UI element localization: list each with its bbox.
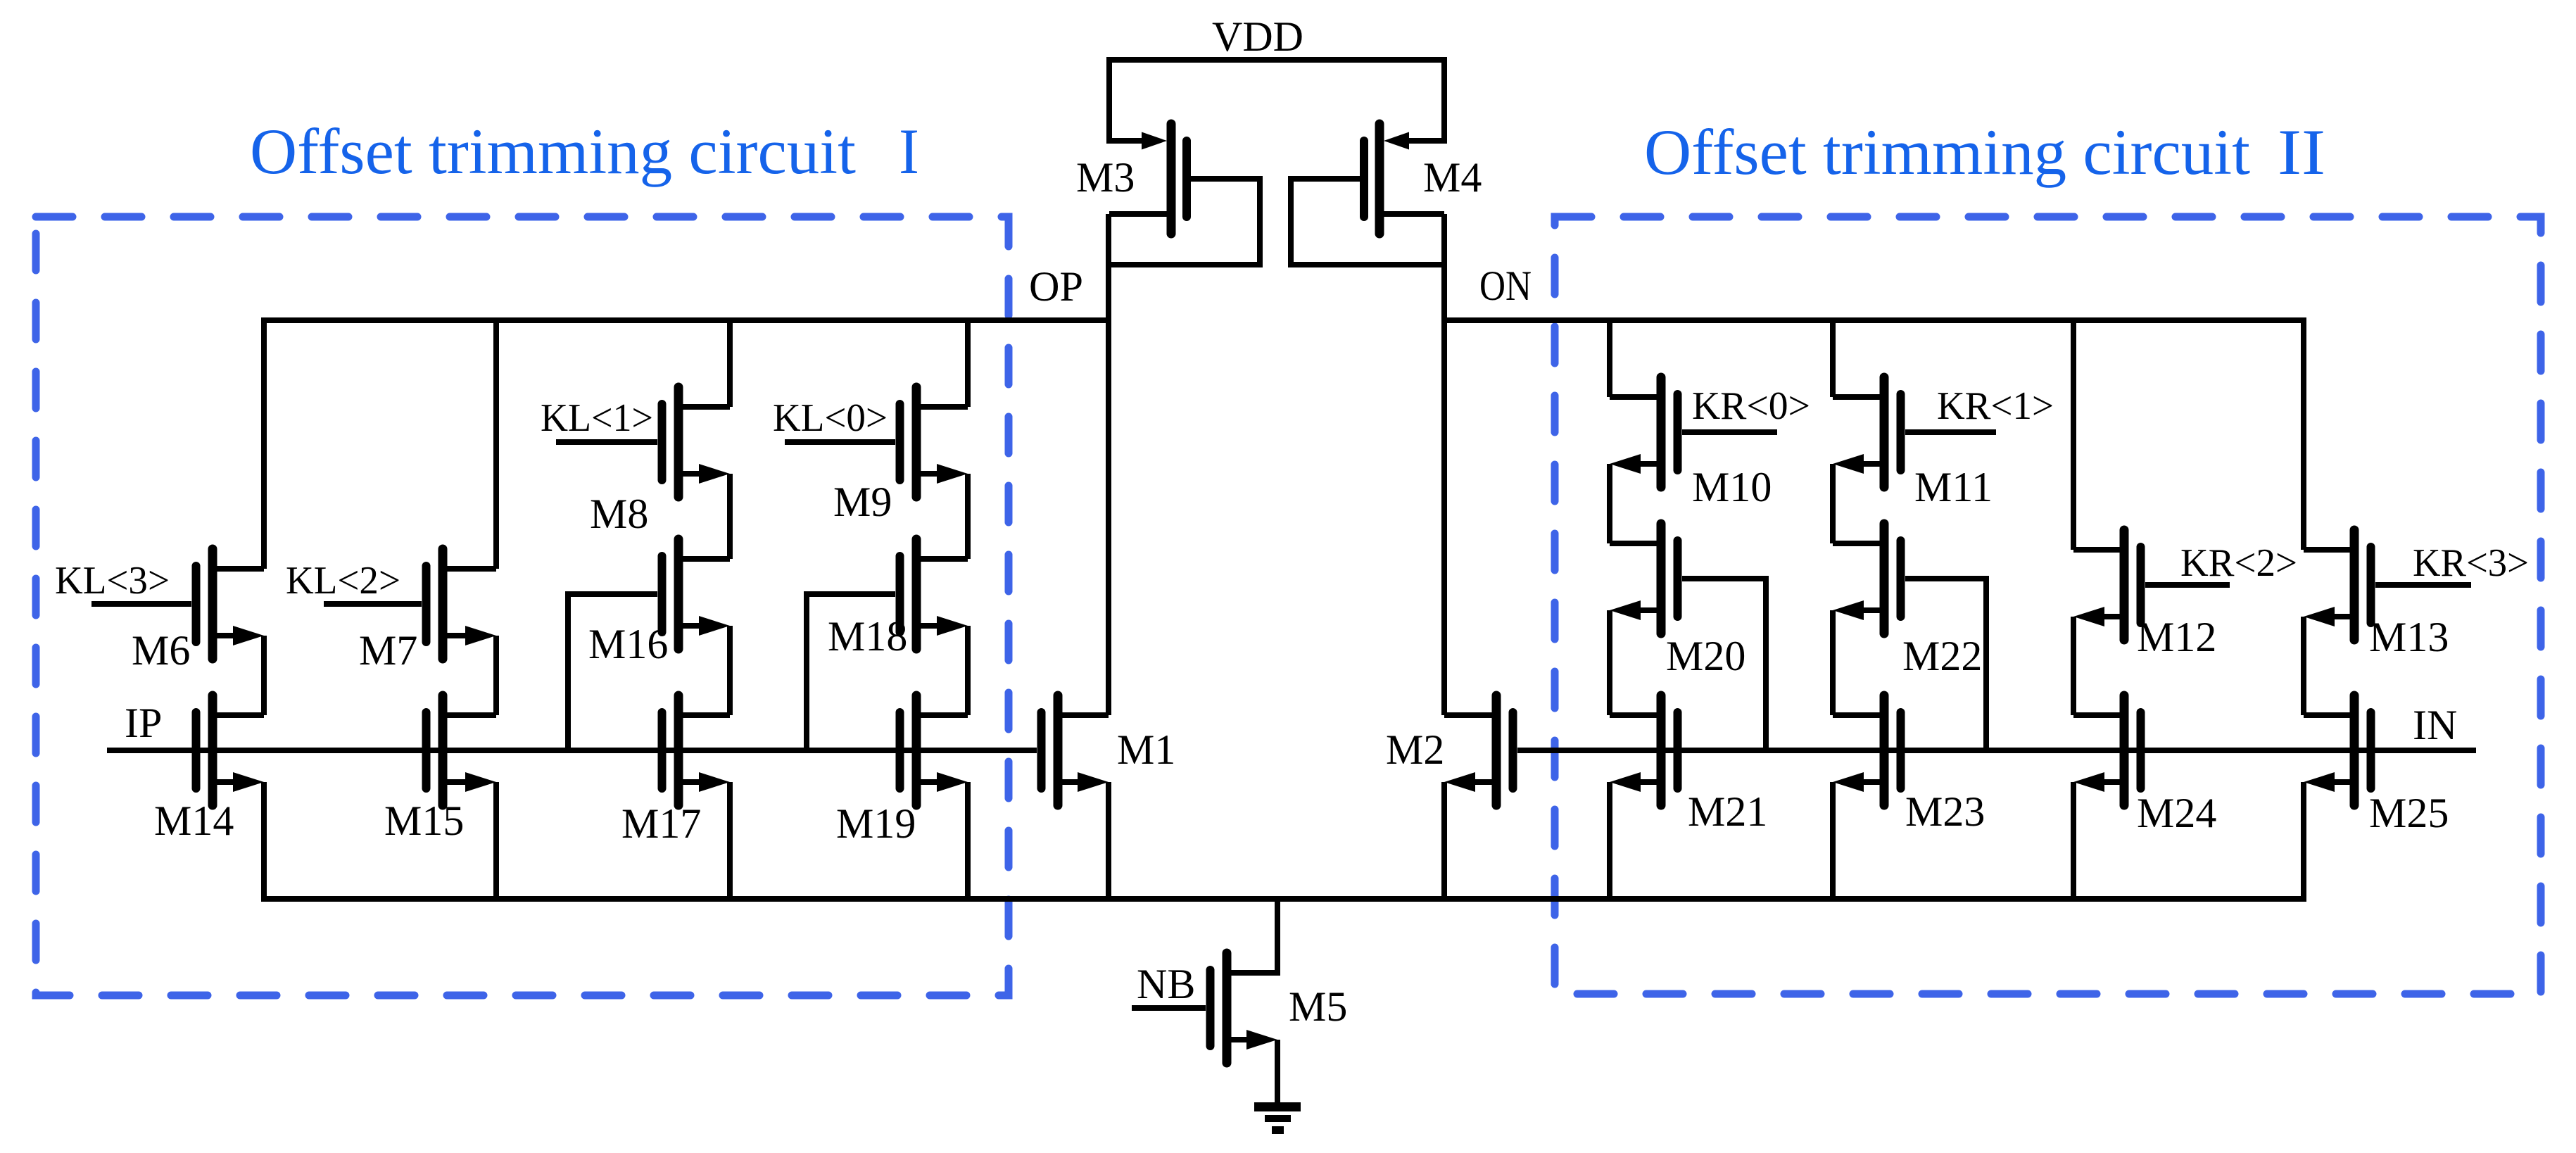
svg-text:OP: OP	[1029, 263, 1083, 310]
wire M20 source to M21 drain	[1607, 610, 1612, 715]
svg-text:KR<2>: KR<2>	[2180, 541, 2297, 585]
wire KL<0> gate	[785, 439, 895, 445]
svg-text:M18: M18	[828, 613, 907, 660]
wire M18 gate hook to IP rail	[807, 594, 895, 750]
transistor M11	[1833, 377, 1901, 487]
wire M15 source to tail rail	[493, 782, 499, 902]
transistor M23	[1833, 695, 1901, 805]
svg-text:M14: M14	[154, 798, 234, 844]
wire KR<0> gate	[1682, 429, 1777, 435]
wire M24 source to tail rail	[2071, 782, 2076, 902]
IP input rail	[107, 748, 1037, 753]
transistor M7	[427, 549, 497, 659]
wire KR<1> gate	[1905, 429, 1996, 435]
wire M9 source to M18 drain	[965, 474, 971, 559]
svg-text:KR<3>: KR<3>	[2413, 541, 2529, 585]
transistor M24	[2073, 695, 2141, 805]
wire ON rail to M12 drain	[2071, 317, 2076, 550]
wire M14 source to tail rail	[261, 782, 267, 902]
transistor M21	[1610, 695, 1678, 805]
wire tail to M5 drain	[1227, 899, 1277, 973]
wire M13 source to M25 drain	[2301, 617, 2306, 715]
svg-text:M1: M1	[1117, 726, 1175, 773]
ground	[1254, 1102, 1301, 1134]
wire M12 source to M24 drain	[2071, 617, 2076, 715]
wire M6 source to M14 drain	[261, 636, 267, 715]
transistor M6	[196, 549, 265, 659]
svg-text:M16: M16	[588, 621, 668, 667]
wire M20 gate hook to IN rail	[1682, 579, 1766, 750]
transistor M8	[662, 387, 731, 497]
wire M10 source to M20 drain	[1607, 464, 1612, 543]
svg-text:M13: M13	[2369, 614, 2449, 660]
transistor M13	[2304, 530, 2371, 640]
svg-text:II: II	[2278, 116, 2325, 188]
wire KR<2> gate	[2145, 582, 2230, 588]
wire M25 source to tail rail	[2301, 782, 2306, 902]
svg-text:M23: M23	[1905, 788, 1985, 835]
wire M16 source to M17 drain	[727, 626, 733, 715]
transistor M3	[1109, 124, 1187, 234]
transistor M17	[662, 695, 731, 805]
IN input rail	[1517, 748, 2476, 753]
svg-text:VDD: VDD	[1212, 13, 1303, 60]
wire ON rail to M13 drain	[2301, 317, 2306, 550]
svg-text:NB: NB	[1137, 961, 1195, 1007]
wire M17 source to tail rail	[727, 782, 733, 902]
ON rail	[1444, 317, 2306, 323]
svg-text:Offset trimming circuit: Offset trimming circuit	[1644, 116, 2250, 188]
svg-text:M11: M11	[1914, 464, 1993, 510]
svg-text:M12: M12	[2137, 614, 2216, 660]
wire M11 source to M22 drain	[1830, 464, 1836, 543]
wire M23 source to tail rail	[1830, 782, 1836, 902]
svg-text:M19: M19	[836, 800, 916, 847]
transistor M20	[1610, 524, 1678, 634]
transistor M16	[662, 539, 731, 649]
svg-text:M15: M15	[384, 798, 464, 844]
svg-text:I: I	[899, 115, 919, 187]
wire M1 source to tail	[1106, 782, 1111, 902]
wire M22 source to M23 drain	[1830, 610, 1836, 715]
node ON vertical wire (M4 drain to M2 drain)	[1441, 214, 1447, 715]
wire M7 source to M15 drain	[493, 636, 499, 715]
svg-text:KR<0>: KR<0>	[1692, 384, 1810, 428]
svg-text:M22: M22	[1902, 633, 1982, 679]
svg-text:KL<2>: KL<2>	[286, 559, 400, 603]
wire M19 source to tail rail	[965, 782, 971, 902]
svg-text:IP: IP	[125, 700, 162, 746]
wire ON rail to M11 drain	[1830, 317, 1836, 397]
transistor M22	[1833, 524, 1901, 634]
VDD power rail	[1109, 57, 1444, 63]
transistor M10	[1610, 377, 1678, 487]
transistor M9	[900, 387, 968, 497]
node OP vertical wire (M3 drain to M1 drain)	[1106, 214, 1111, 715]
wire VDD to M3 source	[1106, 57, 1112, 144]
transistor M25	[2304, 695, 2371, 805]
transistor M15	[427, 695, 497, 805]
transistor M4	[1364, 124, 1444, 234]
svg-text:M17: M17	[621, 800, 701, 847]
wire KR<3> gate	[2375, 582, 2471, 588]
wire ON rail to M10 drain	[1607, 317, 1612, 397]
dashed box: Offset trimming circuit II	[1555, 217, 2541, 994]
svg-text:M3: M3	[1076, 154, 1135, 201]
wire M3 gate diode-connection loop	[1111, 179, 1260, 265]
OP rail	[261, 317, 1109, 323]
svg-text:M25: M25	[2369, 790, 2449, 836]
wire KL<3> gate	[91, 601, 191, 607]
svg-text:M8: M8	[590, 491, 648, 537]
transistor M19	[900, 695, 968, 805]
svg-text:KL<0>: KL<0>	[773, 396, 888, 440]
wire VDD to M4 source	[1441, 57, 1447, 144]
wire NB gate	[1132, 1005, 1206, 1011]
svg-text:M2: M2	[1386, 726, 1444, 773]
svg-text:M6: M6	[132, 627, 190, 674]
wire OP rail to M7 drain	[493, 317, 499, 569]
wire KL<2> gate	[324, 601, 422, 607]
wire M16 gate hook to IP rail	[568, 594, 657, 750]
wire OP rail to M8 drain	[727, 317, 733, 407]
transistor M2	[1444, 695, 1513, 805]
svg-text:M5: M5	[1289, 983, 1347, 1030]
svg-text:M20: M20	[1666, 633, 1745, 679]
transistor M14	[196, 695, 265, 805]
wire M5 source to ground	[1275, 1040, 1280, 1107]
svg-text:IN: IN	[2413, 702, 2457, 748]
wire M4 gate diode-connection loop	[1291, 179, 1442, 265]
tail rail (common sources)	[264, 896, 2306, 902]
svg-text:M7: M7	[359, 627, 417, 674]
transistor M5	[1211, 953, 1278, 1063]
svg-text:M24: M24	[2137, 790, 2216, 836]
wire M22 gate hook to IN rail	[1905, 579, 1986, 750]
wire M2 source to tail	[1441, 782, 1447, 902]
transistor M18	[900, 539, 968, 649]
svg-text:ON: ON	[1479, 263, 1532, 309]
svg-text:KR<1>: KR<1>	[1937, 384, 2054, 428]
wire M8 source to M16 drain	[727, 474, 733, 559]
wire M21 source to tail rail	[1607, 782, 1612, 902]
dashed box: Offset trimming circuit I	[36, 217, 1009, 995]
svg-text:M9: M9	[833, 479, 892, 525]
wire M18 source to M19 drain	[965, 626, 971, 715]
svg-text:M21: M21	[1688, 788, 1767, 835]
svg-text:KL<3>: KL<3>	[55, 559, 170, 603]
transistor M1	[1042, 695, 1109, 805]
svg-text:Offset trimming circuit: Offset trimming circuit	[250, 115, 856, 187]
wire OP rail to M9 drain	[965, 317, 971, 407]
transistor M12	[2073, 530, 2141, 640]
svg-text:M10: M10	[1692, 464, 1772, 510]
wire KL<1> gate	[556, 439, 657, 445]
wire OP rail to M6 drain	[261, 317, 267, 569]
svg-text:M4: M4	[1423, 154, 1482, 201]
svg-text:KL<1>: KL<1>	[541, 396, 653, 440]
